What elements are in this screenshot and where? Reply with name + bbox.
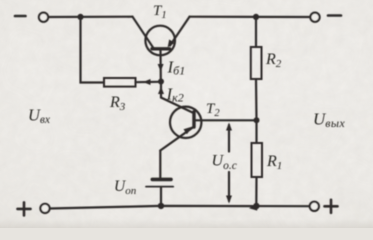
- resistor R2: [251, 47, 262, 79]
- transistor T2: [160, 107, 201, 151]
- transistor T1: [133, 17, 190, 56]
- node: top-right junction: [253, 14, 259, 20]
- current arrow at bottom-right node (pointing down-left): [249, 203, 258, 210]
- input terminal circle (bottom-left): [40, 204, 49, 213]
- node: top-left junction: [77, 14, 83, 20]
- bottom rail wire: [50, 206, 311, 209]
- node: divider midpoint junction: [254, 117, 260, 123]
- plus terminal label (output, bottom-right): [325, 200, 338, 213]
- node A junction: [158, 79, 164, 85]
- wire: T1 base down to node A: [159, 51, 162, 81]
- input terminal circle (top-left): [39, 13, 48, 22]
- wire: R3 branch (down then right): [81, 17, 105, 83]
- minus terminal label (output, top-right): [328, 14, 341, 17]
- wire: junction to R1 top: [255, 120, 257, 143]
- reference source U_op: thin plate: [146, 186, 173, 188]
- wire: T2 base to divider junction: [195, 119, 257, 121]
- current arrow I_b1 (pointing down): [158, 64, 164, 72]
- wire: R1 bottom to rail: [255, 177, 257, 205]
- wire: reference to bottom rail: [160, 188, 162, 206]
- wire: top rail left segment: [48, 16, 132, 18]
- plus terminal label (input, bottom-left): [18, 202, 31, 215]
- wire: T2 emitter down to reference: [159, 151, 161, 179]
- reference source U_op: thick plate: [152, 178, 171, 182]
- wire: node A to T2 collector: [161, 82, 194, 113]
- output terminal circle (top-right): [310, 13, 319, 22]
- node: bottom-right junction: [253, 203, 259, 209]
- resistor R1: [252, 143, 263, 177]
- current arrow on R3 wire (pointing left): [143, 79, 151, 85]
- minus terminal label (input, top-left): [15, 15, 26, 18]
- wire: R2 branch top: [255, 17, 257, 47]
- measurement arrow U_o.c (double headed, gapped at label): [228, 125, 230, 152]
- wire: R2 bottom to junction: [255, 79, 258, 120]
- node: bottom-center junction: [158, 203, 164, 209]
- wire: R3 to node A: [136, 81, 160, 84]
- wire: top rail right segment: [190, 16, 311, 18]
- current arrow I_k2 (pointing up): [158, 87, 164, 95]
- output terminal circle (bottom-right): [310, 202, 319, 211]
- resistor R3: [104, 78, 136, 87]
